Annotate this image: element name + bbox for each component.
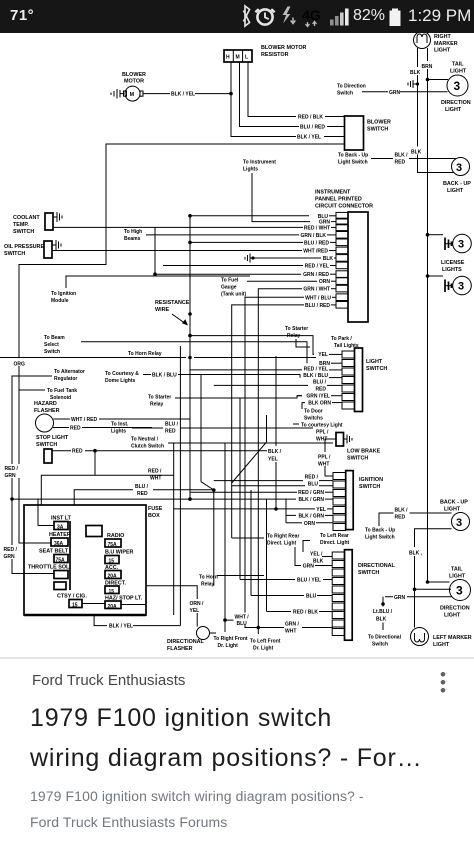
- svg-text:M: M: [130, 92, 135, 98]
- svg-text:75A: 75A: [108, 542, 118, 548]
- svg-text:BLU: BLU: [306, 594, 317, 600]
- svg-text:RESISTANCE: RESISTANCE: [155, 300, 190, 306]
- svg-text:YEL: YEL: [318, 352, 328, 358]
- svg-text:BLK / GRN: BLK / GRN: [298, 513, 324, 519]
- svg-text:WHT: WHT: [285, 629, 296, 635]
- node GRN/RED tap: [153, 227, 301, 276]
- to right rear direct light: [232, 534, 301, 566]
- license light L4: [426, 233, 472, 253]
- svg-text:LICENSE: LICENSE: [441, 260, 465, 266]
- svg-text:WHT: WHT: [150, 476, 161, 482]
- svg-text:RED /: RED /: [148, 469, 162, 475]
- pin BLU/YEL: [240, 578, 332, 584]
- svg-text:To Ignition: To Ignition: [51, 291, 76, 297]
- direction light label bottom: [440, 606, 470, 619]
- pin label BLK: [323, 256, 336, 262]
- to door switchs: [304, 409, 323, 422]
- svg-text:36A: 36A: [54, 541, 64, 547]
- svg-text:Switch: Switch: [44, 349, 60, 355]
- trunk wire x180: [179, 346, 181, 626]
- svg-text:BLK / YEL: BLK / YEL: [297, 135, 321, 141]
- svg-text:BACK - UP: BACK - UP: [440, 500, 468, 506]
- svg-text:MARKER: MARKER: [434, 41, 458, 47]
- svg-text:RED: RED: [395, 515, 406, 521]
- svg-text:Switchs: Switchs: [304, 416, 323, 422]
- svg-text:To Directional: To Directional: [368, 635, 402, 641]
- to neutral clutch switch: [131, 437, 333, 450]
- to courtesy and dome lights: [105, 371, 300, 384]
- svg-text:3: 3: [458, 239, 464, 251]
- wire BLK marker light down: [418, 48, 455, 173]
- pin BLK/GRN 2: [286, 513, 333, 520]
- svg-text:SWITCH: SWITCH: [4, 251, 25, 257]
- svg-text:WIRE: WIRE: [155, 307, 169, 313]
- svg-text:THROTTLE SOL.: THROTTLE SOL.: [28, 565, 71, 571]
- svg-text:Switch: Switch: [337, 91, 353, 97]
- svg-text:Direct. Light: Direct. Light: [320, 540, 350, 546]
- svg-text:YEL: YEL: [316, 507, 326, 513]
- svg-text:BRN: BRN: [422, 64, 433, 70]
- to high beams: [124, 229, 299, 242]
- svg-text:IGNITION: IGNITION: [359, 477, 383, 483]
- wire GRN to tail bottom: [385, 588, 452, 601]
- svg-text:DIRECTION: DIRECTION: [440, 606, 470, 612]
- to starter relay upper: [285, 326, 310, 347]
- svg-text:FUSE: FUSE: [148, 506, 163, 512]
- fuse BU WIPER 15: [105, 550, 134, 565]
- stop light switch S4: [36, 435, 69, 463]
- wire BLK back-up to marker: [408, 529, 452, 628]
- svg-text:TAIL: TAIL: [451, 567, 463, 573]
- svg-text:LIGHT: LIGHT: [434, 48, 451, 54]
- pin ORN: [286, 521, 333, 527]
- svg-text:To Beam: To Beam: [44, 335, 65, 341]
- label BLK/YEL mid trunk: [267, 356, 285, 509]
- svg-text:BLK ,: BLK ,: [409, 551, 423, 557]
- svg-text:LEFT MARKER: LEFT MARKER: [433, 635, 472, 641]
- to back-up light switch label: [338, 153, 393, 166]
- to fuel gauge: [221, 278, 317, 298]
- fuse CTSY/CIG 15: [57, 594, 105, 609]
- license lights label: [441, 260, 465, 273]
- svg-text:INSTRUMENT: INSTRUMENT: [315, 190, 351, 196]
- svg-text:BLK: BLK: [411, 150, 422, 156]
- svg-text:BOX: BOX: [148, 513, 160, 519]
- wire BLK/YEL blower motor to resistor H: [143, 92, 231, 98]
- svg-text:To High: To High: [124, 229, 142, 235]
- svg-text:Dr. Light: Dr. Light: [253, 646, 274, 652]
- pin label WHT/BLU: [305, 295, 336, 301]
- svg-text:To Left Rear: To Left Rear: [320, 533, 349, 539]
- svg-text:BLU /: BLU /: [313, 379, 327, 385]
- svg-text:YEL /: YEL /: [310, 552, 323, 558]
- svg-text:STOP LIGHT: STOP LIGHT: [36, 435, 69, 441]
- svg-text:GRN / BLK: GRN / BLK: [300, 233, 326, 239]
- pin GRN dir: [303, 564, 332, 570]
- svg-text:RED: RED: [72, 449, 83, 455]
- svg-text:PANNEL PRINTED: PANNEL PRINTED: [315, 197, 362, 203]
- label BRN top: [421, 61, 435, 70]
- to directional switch label: [368, 635, 402, 648]
- svg-text:YEL: YEL: [190, 608, 200, 614]
- wire BLU pin1: [190, 215, 309, 217]
- svg-text:BLU / RED: BLU / RED: [304, 240, 329, 246]
- blower motor resistor R1: [224, 45, 307, 62]
- pin RED/YEL: [190, 367, 342, 373]
- pin label RED/YEL: [305, 264, 336, 270]
- wire BLK/YEL bottom: [94, 615, 180, 630]
- wire ORN/YEL to flasher: [146, 586, 207, 627]
- pin BLK/BLU: [303, 373, 342, 379]
- trunk wire x190 lower: [189, 358, 191, 500]
- svg-text:CIRCUIT CONNECTOR: CIRCUIT CONNECTOR: [315, 204, 373, 210]
- label RED/GRN lower: [3, 545, 20, 560]
- wire BRN marker light down right side: [428, 48, 450, 582]
- svg-text:TAIL: TAIL: [452, 62, 464, 68]
- svg-text:BLK ORN: BLK ORN: [308, 401, 331, 407]
- svg-text:3: 3: [456, 162, 462, 174]
- svg-text:LOW BRAKE: LOW BRAKE: [347, 449, 381, 455]
- wire RED from hazard flasher: [53, 426, 152, 432]
- svg-text:SWITCH: SWITCH: [13, 229, 34, 235]
- svg-text:WHT /RED: WHT /RED: [303, 249, 328, 255]
- blower motor ground: [111, 89, 124, 99]
- pin BLU dir: [251, 594, 332, 600]
- svg-text:3: 3: [454, 79, 461, 93]
- svg-text:15: 15: [109, 589, 115, 595]
- wire BLK into back-up light: [410, 147, 424, 156]
- svg-text:BLK /: BLK /: [395, 508, 409, 514]
- pin label GRN: [319, 220, 336, 226]
- svg-text:To Neutral /: To Neutral /: [131, 437, 159, 443]
- svg-text:Select: Select: [44, 342, 59, 348]
- pin BRN: [319, 361, 342, 367]
- svg-text:HEATER: HEATER: [49, 532, 71, 538]
- label RED/BLK: [298, 115, 345, 121]
- svg-text:GRN: GRN: [303, 564, 315, 570]
- to inst lights: [111, 422, 313, 435]
- svg-text:15: 15: [109, 559, 115, 565]
- svg-text:RED / YEL: RED / YEL: [304, 367, 328, 373]
- pin label WHT/RED: [303, 249, 336, 255]
- svg-text:B.U WIPER: B.U WIPER: [105, 550, 134, 556]
- back-up light L3 top: [443, 158, 471, 195]
- to horn relay wire: [0, 351, 316, 359]
- svg-text:LIGHTS: LIGHTS: [442, 267, 462, 273]
- svg-text:PPL /: PPL /: [316, 430, 329, 436]
- svg-text:RED: RED: [395, 160, 406, 166]
- svg-text:To Horn Relay: To Horn Relay: [128, 351, 162, 357]
- wire BLU/RED pin5: [188, 241, 303, 245]
- svg-text:PPL /: PPL /: [318, 455, 331, 461]
- svg-text:BLU /: BLU /: [165, 422, 179, 428]
- svg-text:BLK: BLK: [323, 256, 334, 262]
- svg-text:ORG: ORG: [14, 362, 26, 368]
- svg-text:DIRECTIONAL: DIRECTIONAL: [358, 563, 396, 569]
- svg-text:BLK / YEL: BLK / YEL: [109, 624, 133, 630]
- svg-text:GRN /: GRN /: [285, 622, 300, 628]
- fuse DIRECT 15: [105, 581, 126, 596]
- svg-text:LIGHT: LIGHT: [366, 359, 383, 365]
- trunk wire x213.8: [213, 490, 215, 586]
- svg-text:BLK / BLU: BLK / BLU: [303, 373, 328, 379]
- wire PPL/WHT low brake to ignition: [318, 439, 336, 476]
- pin BLU/RED: [214, 379, 342, 392]
- svg-text:H: H: [226, 55, 230, 61]
- svg-text:To Left Front: To Left Front: [250, 639, 281, 645]
- svg-text:BLK / GRN: BLK / GRN: [298, 497, 324, 503]
- svg-text:SWITCH: SWITCH: [347, 456, 368, 462]
- svg-text:L: L: [245, 55, 248, 61]
- back-up light L6 bottom: [440, 500, 470, 531]
- node ORG label: [13, 358, 26, 368]
- svg-text:LIGHT: LIGHT: [444, 507, 461, 513]
- svg-text:RIGHT: RIGHT: [434, 34, 451, 40]
- svg-text:LIGHT: LIGHT: [433, 642, 450, 648]
- pin RED/GRN: [190, 490, 333, 496]
- svg-text:Lt.BLU /: Lt.BLU /: [373, 609, 393, 615]
- label BLU/RED: [300, 125, 345, 131]
- fuse RADIO 75A: [105, 533, 124, 548]
- pin YEL ign: [174, 507, 333, 513]
- trunk wire x240b: [239, 398, 241, 580]
- to instrument lights: [243, 160, 310, 222]
- blower motor M1: [122, 72, 146, 101]
- svg-text:RED /: RED /: [305, 475, 319, 481]
- svg-text:Lights: Lights: [111, 429, 126, 435]
- svg-text:GRN: GRN: [394, 595, 406, 601]
- svg-text:BLK: BLK: [376, 617, 387, 623]
- pin GRN/YEL: [297, 394, 342, 400]
- svg-text:ORN /: ORN /: [190, 601, 205, 607]
- diagonal crossover wires: [201, 415, 267, 492]
- svg-text:RED: RED: [315, 386, 326, 392]
- svg-text:BLK /: BLK /: [395, 153, 409, 159]
- svg-text:SWITCH: SWITCH: [359, 484, 380, 490]
- wire to park tail lights: [188, 334, 314, 355]
- wire resistor H down to BLK/YEL feed: [231, 62, 296, 137]
- svg-text:GRN: GRN: [4, 554, 16, 560]
- pin label BLU/RED: [304, 240, 336, 246]
- right marker light L1: [414, 32, 458, 54]
- trunk wire x251b: [250, 490, 252, 596]
- svg-text:To Instrument: To Instrument: [243, 160, 276, 166]
- svg-text:20A: 20A: [108, 604, 118, 610]
- fuse box FB1: [24, 505, 163, 616]
- svg-text:BLU / RED: BLU / RED: [305, 303, 330, 309]
- svg-text:BLK / YEL: BLK / YEL: [171, 92, 195, 98]
- svg-text:TEMP.: TEMP.: [13, 222, 29, 228]
- pin label BLU/RED 13: [305, 303, 336, 309]
- fuse THROTTLE SOL: [28, 565, 71, 579]
- svg-text:BLU / RED: BLU / RED: [300, 125, 325, 131]
- node BRN to tail light: [426, 78, 448, 82]
- svg-text:RED: RED: [165, 429, 176, 435]
- pin YEL/BLK: [310, 552, 332, 565]
- svg-text:WHT / RED: WHT / RED: [71, 417, 97, 423]
- wire RED/YEL pin8: [163, 265, 303, 267]
- svg-text:To Starter: To Starter: [285, 326, 308, 332]
- label GRN/WHT bottom: [284, 619, 302, 635]
- pin YEL: [318, 352, 342, 358]
- svg-text:Regulator: Regulator: [54, 376, 77, 382]
- svg-text:To Inst.: To Inst.: [111, 422, 129, 428]
- svg-text:To Back - Up: To Back - Up: [365, 528, 395, 534]
- svg-text:15: 15: [72, 603, 78, 609]
- directional switch J4: [332, 550, 395, 641]
- resistance wire R2: [155, 214, 192, 356]
- wire resistor L down: [248, 62, 296, 117]
- label PPL/WHT upper: [316, 430, 329, 443]
- wire WHT/BLU pin12 trunk down: [245, 297, 304, 627]
- svg-text:3: 3: [458, 281, 464, 293]
- svg-text:RED: RED: [137, 491, 148, 497]
- svg-text:To Horn: To Horn: [199, 575, 218, 581]
- to back-up light switch bottom: [365, 506, 452, 541]
- oil pressure switch S3: [4, 240, 61, 258]
- svg-text:SWITCH: SWITCH: [366, 366, 387, 372]
- svg-text:GRN / WHT: GRN / WHT: [303, 287, 330, 293]
- svg-text:M: M: [236, 55, 240, 61]
- pin BLK/GRN: [298, 497, 333, 503]
- svg-text:GRN: GRN: [5, 473, 17, 479]
- svg-text:3A: 3A: [57, 525, 64, 531]
- connector blank rect: [86, 526, 102, 537]
- wire resistor M down: [240, 62, 300, 127]
- label BLK/RED top right: [395, 153, 457, 166]
- svg-text:ORN: ORN: [304, 521, 316, 527]
- svg-text:To Park /: To Park /: [331, 336, 352, 342]
- fuse INST LT 3A: [38, 499, 72, 531]
- wire coolant to RED/WHT pin: [53, 226, 303, 228]
- to starter relay left: [148, 395, 302, 408]
- wire BLU/RED to jog node: [74, 484, 214, 505]
- svg-text:BLU: BLU: [308, 482, 319, 488]
- svg-text:RED / BLK: RED / BLK: [298, 115, 323, 121]
- svg-text:SWITCH: SWITCH: [36, 442, 57, 448]
- svg-text:WHT /: WHT /: [235, 615, 250, 621]
- pin RED/BLU: [214, 475, 333, 488]
- svg-text:HAZARD: HAZARD: [34, 401, 57, 407]
- svg-text:To Fuel: To Fuel: [221, 278, 239, 284]
- svg-text:GRN: GRN: [389, 90, 401, 96]
- svg-text:4G: 4G: [302, 7, 321, 23]
- svg-text:SWITCH: SWITCH: [358, 570, 379, 576]
- label RED/WHT mid: [148, 469, 162, 482]
- svg-text:RED /: RED /: [4, 547, 18, 553]
- to alternator regulator: [12, 369, 85, 574]
- node BRN tail bottom: [426, 580, 430, 584]
- svg-text:Light Switch: Light Switch: [338, 160, 368, 166]
- svg-text:To Right Rear: To Right Rear: [267, 534, 299, 540]
- svg-text:BLU / YEL: BLU / YEL: [297, 578, 321, 584]
- instrument panel printed circuit connector J1: [315, 190, 373, 323]
- trunk wire x225: [224, 443, 226, 632]
- svg-text:RED /: RED /: [5, 466, 19, 472]
- svg-text:BLK / BLU: BLK / BLU: [152, 373, 177, 379]
- svg-text:YEL: YEL: [268, 457, 278, 463]
- svg-text:Relay: Relay: [287, 333, 301, 339]
- svg-text:To Door: To Door: [304, 409, 323, 415]
- svg-text:BLOWER MOTOR: BLOWER MOTOR: [261, 45, 307, 51]
- svg-text:FLASHER: FLASHER: [34, 408, 60, 414]
- to fuel tank solenoid: [19, 388, 77, 401]
- svg-text:RED / WHT: RED / WHT: [304, 225, 330, 231]
- svg-text:WHT: WHT: [318, 462, 329, 468]
- to ignition module: [51, 276, 250, 304]
- svg-text:To Right Front: To Right Front: [214, 636, 248, 642]
- wire BLU/RED pin13 trunk down: [232, 305, 304, 538]
- svg-text:Module: Module: [51, 298, 69, 304]
- svg-text:SWITCH: SWITCH: [367, 127, 388, 133]
- wire BLU/RED lower left: [41, 443, 173, 615]
- ground at tail light: [408, 80, 419, 88]
- svg-text:Clutch Switch: Clutch Switch: [131, 444, 164, 450]
- wire ORG feed: top rail to blower switch: [19, 144, 345, 543]
- svg-text:LIGHT: LIGHT: [447, 188, 464, 194]
- svg-text:CTSY / CIG.: CTSY / CIG.: [57, 594, 87, 600]
- fuse blank: [54, 582, 66, 590]
- svg-text:Switch: Switch: [372, 642, 388, 648]
- pin label GRN/WHT: [303, 287, 336, 293]
- svg-text:RED / BLK: RED / BLK: [293, 610, 318, 616]
- to beam select switch: [44, 335, 307, 363]
- trunk x266 bottom: [266, 499, 268, 611]
- svg-text:WHT / BLU: WHT / BLU: [305, 295, 331, 301]
- svg-text:LIGHT: LIGHT: [445, 107, 462, 113]
- wire to direction switch GRN: [337, 84, 448, 97]
- label BLK: [409, 67, 423, 76]
- svg-text:To Back - Up: To Back - Up: [338, 153, 368, 159]
- svg-text:BLK: BLK: [410, 70, 421, 76]
- svg-text:To Alternator: To Alternator: [54, 369, 85, 375]
- svg-text:Relay: Relay: [201, 582, 215, 588]
- directional flasher F2: [167, 627, 216, 653]
- pin RED/BLK: [267, 610, 333, 616]
- svg-text:RESISTOR: RESISTOR: [261, 52, 289, 58]
- svg-text:INST LT: INST LT: [51, 516, 72, 522]
- ignition switch J3: [333, 471, 383, 531]
- node right front: [214, 618, 248, 649]
- fuse HEATER 36A: [49, 532, 71, 547]
- trunk x286 bottom: [285, 499, 287, 523]
- svg-text:20A: 20A: [108, 574, 118, 580]
- svg-text:(Tank unit): (Tank unit): [221, 292, 247, 298]
- svg-text:Direct. Light: Direct. Light: [267, 541, 297, 547]
- svg-text:Gauge: Gauge: [221, 285, 237, 291]
- fuse SEAT BELT 75A: [39, 549, 69, 564]
- wire RED from stop light switch: [52, 449, 276, 455]
- svg-text:BLOWER: BLOWER: [367, 120, 391, 126]
- wire WHT/RED from hazard flasher: [54, 417, 191, 423]
- label RED/GRN upper: [4, 464, 21, 479]
- pin label GRN/RED: [303, 272, 336, 278]
- tail light L2: [447, 62, 468, 97]
- to courtesy light: [293, 423, 343, 429]
- svg-text:RED: RED: [70, 426, 81, 432]
- svg-text:FLASHER: FLASHER: [167, 646, 193, 652]
- pin BLK ORN: [302, 401, 342, 410]
- wire GRN/WHT pin11 trunk down: [258, 289, 333, 634]
- svg-text:BLU /: BLU /: [135, 484, 149, 490]
- light switch J2: [342, 348, 387, 412]
- svg-text:RADIO: RADIO: [107, 533, 124, 539]
- label BLK/YEL: [297, 135, 345, 141]
- svg-text:Beams: Beams: [124, 236, 141, 242]
- to horn relay bottom: [199, 575, 264, 588]
- label WHT/BLU bottom: [234, 613, 281, 652]
- svg-text:GRN / RED: GRN / RED: [303, 272, 329, 278]
